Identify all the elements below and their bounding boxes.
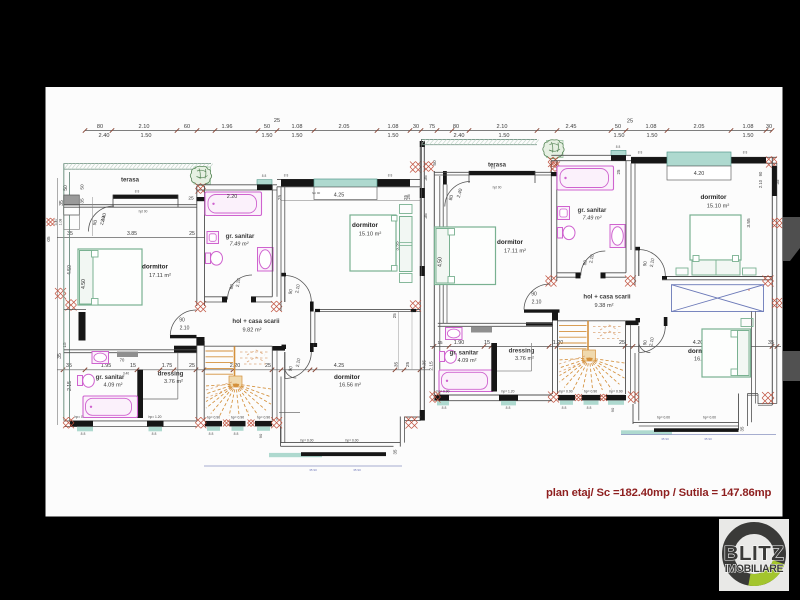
svg-text:4.50: 4.50 (438, 257, 444, 267)
dormitor 15.10 window bars (281, 179, 314, 186)
svg-text:1.08: 1.08 (646, 124, 657, 130)
svg-text:90: 90 (758, 171, 763, 176)
svg-text:3.40: 3.40 (54, 219, 58, 226)
svg-text:8 8: 8 8 (506, 406, 511, 410)
svg-text:dressing: dressing (158, 371, 184, 378)
svg-text:30: 30 (413, 124, 419, 130)
counter 4.09 R (471, 327, 492, 333)
svg-text:BLITZ: BLITZ (724, 542, 785, 565)
svg-text:35: 35 (57, 353, 63, 359)
sink 7.49 R (558, 207, 570, 220)
svg-text:gr. sanitar: gr. sanitar (226, 234, 255, 240)
svg-text:25: 25 (189, 363, 195, 369)
svg-text:1.08: 1.08 (59, 219, 63, 226)
svg-text:25: 25 (392, 313, 397, 318)
right terrace hatch band (421, 140, 539, 145)
svg-text:1.50: 1.50 (262, 133, 273, 139)
svg-text:1.50: 1.50 (141, 133, 152, 139)
right unit left wall verticals (421, 140, 423, 277)
svg-text:hp= 0.90: hp= 0.90 (257, 416, 270, 420)
svg-text:8 8: 8 8 (388, 174, 393, 178)
bath/dressing divider R (491, 343, 497, 392)
stairwell R right wall (626, 321, 639, 326)
svg-text:7.49 m²: 7.49 m² (583, 215, 603, 221)
left exterior wall (63, 164, 65, 421)
small arc right of stairwell R (639, 344, 651, 353)
svg-text:terasa: terasa (121, 177, 140, 184)
oval sink 7.49 (258, 248, 274, 272)
svg-text:90: 90 (531, 292, 537, 298)
oval sink 7.49 R (610, 225, 625, 248)
svg-text:15: 15 (62, 342, 67, 348)
svg-text:8 8: 8 8 (284, 174, 289, 178)
svg-text:1.95: 1.95 (101, 363, 112, 369)
bathroom/dormitor divider R (625, 161, 627, 273)
svg-text:9.82 m²: 9.82 m² (243, 328, 262, 334)
svg-text:8 8: 8 8 (562, 406, 567, 410)
bottom windows bathroom/dressing (70, 421, 93, 427)
svg-text:70: 70 (120, 358, 125, 363)
svg-text:8 8: 8 8 (442, 406, 447, 410)
svg-text:hpt 90: hpt 90 (493, 186, 502, 190)
svg-text:↓: ↓ (247, 409, 250, 415)
balcony dim line right (621, 434, 776, 436)
svg-text:1.08: 1.08 (292, 124, 303, 130)
svg-text:35 90: 35 90 (704, 437, 712, 441)
white page (46, 87, 783, 517)
svg-text:35 90: 35 90 (309, 468, 317, 472)
svg-text:75: 75 (429, 124, 435, 130)
svg-text:hp= 1.20: hp= 1.20 (502, 389, 515, 393)
corridor wall (315, 308, 420, 310)
svg-text:hol + casa scarii: hol + casa scarii (583, 293, 631, 300)
svg-text:50: 50 (432, 160, 438, 166)
svg-text:1.50: 1.50 (388, 133, 399, 139)
svg-text:hp= 0.90: hp= 0.90 (207, 416, 220, 420)
bathroom 7.49 top wall (197, 184, 277, 186)
svg-text:4.09 m²: 4.09 m² (458, 358, 477, 364)
svg-text:90: 90 (179, 318, 185, 324)
sink 4.09 R (446, 328, 463, 340)
terrace door swing (89, 206, 115, 232)
dressing R closet (531, 343, 533, 371)
svg-text:hp= 0.90: hp= 0.90 (559, 390, 572, 394)
dormitor 15.10 window glass (314, 179, 377, 187)
wall below X box (751, 312, 753, 423)
bathroom door swing (228, 275, 253, 300)
svg-text:↓: ↓ (600, 383, 603, 389)
svg-text:25: 25 (405, 362, 411, 368)
balcony rail left unit (269, 453, 322, 457)
balcony rail right unit (621, 430, 672, 435)
bed dormitor 15.10 left (350, 215, 396, 271)
party wall (419, 141, 421, 421)
dressing closet (177, 353, 179, 399)
right terrace door swing (445, 182, 470, 207)
svg-text:dormitor: dormitor (497, 239, 523, 246)
svg-text:hp= 0.00: hp= 0.00 (703, 416, 716, 420)
door to dormitor 16.25 R (638, 326, 640, 353)
stairwell R top edge (558, 320, 626, 322)
svg-text:3.55: 3.55 (746, 218, 752, 228)
bathtub 7.49 (205, 192, 262, 216)
left wall corner blocks (64, 195, 80, 205)
svg-text:1.08: 1.08 (388, 124, 399, 130)
bathroom 4.09 R top wall (438, 322, 553, 324)
bottom wall R bath/dressing (438, 394, 552, 396)
bathroom 4.09 top wall (64, 349, 197, 351)
svg-text:hp= 0.90: hp= 0.90 (437, 389, 450, 393)
toilet 4.09 R (440, 352, 445, 362)
dormitor 16.56 bottom wall (281, 442, 401, 444)
svg-text:2.10: 2.10 (180, 326, 190, 332)
stair bottom windows (205, 421, 222, 427)
svg-text:15.10 m²: 15.10 m² (707, 203, 730, 209)
svg-text:35: 35 (66, 363, 72, 369)
right unit main dim line (430, 345, 781, 347)
svg-text:15: 15 (130, 363, 136, 369)
svg-text:25: 25 (274, 118, 280, 124)
svg-text:1.50: 1.50 (499, 133, 510, 139)
svg-text:16.56 m²: 16.56 m² (339, 383, 361, 389)
svg-text:gr. sanitar: gr. sanitar (450, 351, 479, 357)
svg-text:8 8: 8 8 (81, 432, 86, 436)
svg-text:1.50: 1.50 (614, 133, 625, 139)
sink 4.09 (92, 352, 109, 364)
svg-text:hp= 0.00: hp= 0.00 (301, 438, 314, 442)
bed dormitor 15.10 R (690, 215, 741, 260)
svg-text:1.50: 1.50 (743, 133, 754, 139)
svg-text:35: 35 (67, 231, 73, 237)
bed dormitor 16.25 R (702, 329, 751, 377)
dormitor 16.25 bottom wall (632, 404, 634, 424)
bathtub 4.09 (83, 396, 138, 418)
svg-text:9.38 m²: 9.38 m² (595, 303, 614, 309)
interior dim line 3.85 (57, 236, 205, 238)
left margin dimension chain (57, 178, 59, 425)
svg-text:hp= 0.90: hp= 0.90 (609, 390, 622, 394)
counter 4.09 (117, 352, 138, 358)
svg-text:35: 35 (393, 449, 398, 454)
terrace sliding door bar (113, 195, 178, 199)
svg-text:hpt 90: hpt 90 (312, 191, 321, 195)
staircase right unit (559, 321, 596, 361)
svg-text:1.96: 1.96 (222, 124, 233, 130)
svg-text:2.45: 2.45 (566, 124, 577, 130)
svg-text:IMOBILIARE: IMOBILIARE (725, 563, 784, 575)
svg-text:80: 80 (453, 124, 459, 130)
wall hol/dressing lower bar (174, 346, 197, 353)
svg-text:90: 90 (610, 407, 615, 412)
svg-text:50: 50 (615, 124, 621, 130)
svg-text:17.11 m²: 17.11 m² (504, 248, 526, 254)
right terrace sliding door bar (469, 171, 535, 175)
svg-text:plan etaj/ Sc =182.40mp / Suti: plan etaj/ Sc =182.40mp / Sutila = 147.8… (546, 487, 772, 499)
bottom windows R (435, 395, 449, 401)
hol door to dormitor 17.11 (170, 335, 197, 338)
svg-text:hp= 1.20: hp= 1.20 (149, 415, 162, 419)
svg-text:25: 25 (616, 169, 621, 174)
svg-text:4.09 m²: 4.09 m² (104, 383, 123, 389)
svg-text:gr. sanitar: gr. sanitar (96, 375, 125, 381)
gray blob lower right edge (783, 351, 800, 381)
svg-text:1.50: 1.50 (647, 133, 658, 139)
svg-text:15: 15 (484, 340, 490, 346)
dormitor 15.10 R window bars (631, 157, 667, 163)
svg-text:4.50: 4.50 (67, 265, 73, 275)
svg-text:2.40: 2.40 (454, 133, 465, 139)
left unit main dim line (57, 369, 430, 371)
svg-text:hpt 90: hpt 90 (139, 210, 148, 214)
logo ring (728, 528, 780, 580)
svg-text:35 90: 35 90 (661, 437, 669, 441)
dormitor 15.10 window sill + dim (314, 187, 377, 200)
svg-text:35: 35 (768, 340, 774, 346)
svg-text:2.10: 2.10 (497, 124, 508, 130)
sink 7.49 (207, 232, 219, 244)
door to dormitor 15.10 (284, 276, 286, 303)
svg-text:2.15: 2.15 (429, 361, 435, 371)
bathroom 7.49 left wall (196, 186, 198, 306)
dormitor 15.10 top wall (277, 178, 421, 180)
corridor stub wall (310, 311, 312, 345)
corridor wall R (662, 276, 772, 278)
bathroom 4.09 / dressing divider (137, 370, 143, 419)
svg-text:35: 35 (80, 198, 86, 204)
bathroom 7.49 R bottom wall (557, 272, 581, 274)
svg-text:25: 25 (619, 340, 625, 346)
svg-text:8 8: 8 8 (234, 432, 239, 436)
svg-text:1.50: 1.50 (292, 133, 303, 139)
svg-text:2.15: 2.15 (67, 381, 73, 391)
bathroom R window (611, 150, 626, 155)
bed dormitor 17.11 R (435, 227, 496, 285)
svg-text:1.90: 1.90 (454, 340, 465, 346)
stairwell left wall (196, 337, 198, 421)
svg-text:90: 90 (258, 433, 263, 438)
svg-text:4.50: 4.50 (81, 279, 87, 289)
svg-text:hol + casa scarii: hol + casa scarii (232, 318, 280, 325)
bathtub 7.49 R (557, 166, 614, 190)
left terrace hatch band (64, 164, 213, 170)
svg-text:1.08: 1.08 (743, 124, 754, 130)
svg-text:2.10: 2.10 (532, 300, 542, 306)
logo lime arc (749, 562, 778, 580)
dormitor 15.10 R top wall (631, 156, 777, 158)
svg-text:2.10: 2.10 (758, 179, 763, 188)
gray blob upper right edge (783, 217, 800, 261)
svg-text:terasa: terasa (488, 162, 507, 169)
svg-text:2.40: 2.40 (99, 133, 110, 139)
X-crossed box (gol) (672, 285, 764, 312)
svg-text:3.76 m²: 3.76 m² (164, 379, 183, 385)
svg-text:8 8: 8 8 (587, 406, 592, 410)
hol R door to dormitor 17.11 (524, 309, 560, 312)
svg-text:8 8: 8 8 (743, 151, 748, 155)
svg-text:8 8: 8 8 (638, 151, 643, 155)
svg-text:4.25: 4.25 (334, 363, 345, 369)
left plant (194, 167, 211, 184)
svg-text:dormitor: dormitor (352, 222, 378, 229)
svg-text:dormitor: dormitor (334, 374, 360, 381)
right unit left exterior lines (433, 171, 435, 401)
svg-text:35 90: 35 90 (353, 468, 361, 472)
svg-text:4.20: 4.20 (694, 171, 705, 177)
toilet 7.49 R (558, 228, 563, 239)
svg-text:15.10 m²: 15.10 m² (359, 231, 382, 237)
bathroom 7.49 R walls (550, 161, 552, 281)
stair bottom windows R (558, 395, 575, 401)
right terrace wall (434, 171, 551, 173)
door to dormitor 15.10 R (638, 250, 640, 277)
svg-text:2.05: 2.05 (694, 124, 705, 130)
svg-text:50: 50 (80, 184, 86, 190)
bathroom/dormitor divider wall (271, 185, 273, 297)
svg-text:25: 25 (188, 196, 194, 202)
staircase left unit (206, 346, 243, 387)
svg-text:25: 25 (189, 231, 195, 237)
svg-text:15: 15 (437, 340, 443, 345)
BLITZ IMOBILIARE logo block (719, 519, 789, 591)
toilet 4.09 (78, 376, 83, 386)
svg-text:8 8: 8 8 (209, 432, 214, 436)
right plant (547, 141, 564, 158)
svg-text:25: 25 (627, 119, 633, 125)
small arc right of stairwell (285, 369, 297, 378)
svg-text:gr. sanitar: gr. sanitar (578, 208, 607, 214)
bathtub 4.09 R (439, 370, 494, 392)
balcony dim line left (204, 465, 402, 467)
bathroom R door swing (581, 251, 606, 276)
svg-text:4.25: 4.25 (334, 192, 345, 198)
bed dormitor 17.11 left (78, 249, 142, 305)
right exterior wall (771, 157, 773, 405)
svg-text:17.11 m²: 17.11 m² (149, 273, 171, 279)
dormitor 15.10 R window glass (667, 152, 731, 166)
left wall junction markers (66, 300, 77, 311)
stairwell right wall (272, 346, 285, 351)
svg-text:hp= 0.00: hp= 0.00 (657, 416, 670, 420)
svg-text:x: x (748, 287, 750, 292)
svg-text:3.85: 3.85 (127, 231, 137, 237)
dormitor 15.10 R sill + dim (667, 166, 731, 180)
svg-text:7.49 m²: 7.49 m² (230, 241, 250, 247)
svg-text:30: 30 (766, 124, 772, 130)
bathroom window (257, 180, 272, 185)
svg-text:dormitor: dormitor (701, 194, 727, 201)
wall stub below bed (79, 312, 86, 341)
door to dormitor 16.56 (284, 352, 286, 379)
svg-text:8 8: 8 8 (262, 174, 267, 178)
stairwell top edge (205, 345, 273, 347)
bottom right step left unit (399, 417, 401, 447)
svg-text:hp= 0.90: hp= 0.90 (584, 390, 597, 394)
terrace wall of dormitor 17.11 (64, 204, 197, 206)
svg-text:dormitor: dormitor (142, 264, 168, 271)
bathroom 7.49 bottom wall (205, 296, 228, 298)
svg-text:2.05: 2.05 (339, 124, 350, 130)
svg-text:8 8: 8 8 (135, 190, 140, 194)
bottom wall left section (64, 420, 197, 422)
svg-text:1.75: 1.75 (162, 363, 173, 369)
svg-text:35: 35 (740, 426, 745, 431)
svg-text:8 8: 8 8 (616, 145, 621, 149)
toilet 7.49 (206, 253, 211, 264)
svg-text:25: 25 (403, 195, 408, 200)
svg-text:hp= 0.00: hp= 0.00 (346, 438, 359, 442)
svg-text:8 8: 8 8 (152, 432, 157, 436)
top dimension line (85, 130, 772, 132)
svg-text:2.20: 2.20 (227, 194, 238, 200)
svg-text:dressing: dressing (509, 348, 535, 355)
svg-text:80: 80 (97, 124, 103, 130)
svg-text:60: 60 (184, 124, 190, 130)
svg-text:2.10: 2.10 (139, 124, 150, 130)
dressing R walls (552, 313, 554, 394)
svg-text:05: 05 (46, 236, 51, 242)
svg-text:50: 50 (264, 124, 270, 130)
svg-text:hp= 0.90: hp= 0.90 (231, 416, 244, 420)
